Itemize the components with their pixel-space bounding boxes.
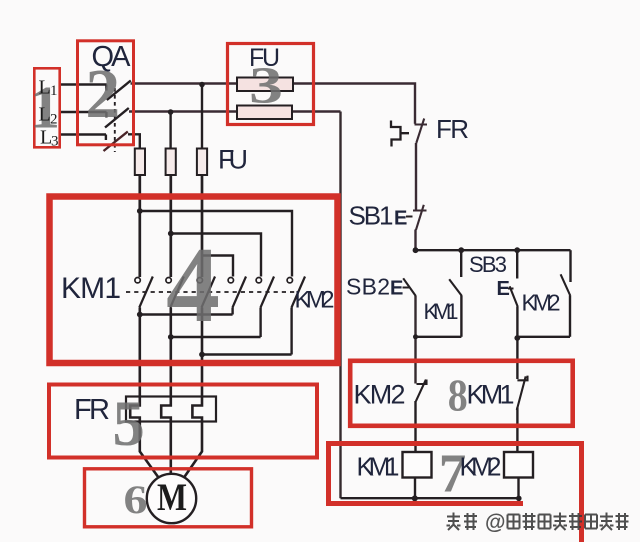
svg-text:KM2: KM2: [354, 380, 406, 410]
wire phase V lower with FR heater jog: [161, 308, 171, 475]
wire phase V upper: [169, 175, 172, 277]
junction control rail left: [413, 247, 419, 253]
wire L2 input: [59, 111, 107, 113]
wire phase U upper: [138, 175, 141, 277]
thermal relay FR heater frame: [126, 397, 216, 422]
svg-text:QA: QA: [92, 41, 132, 73]
watermark glyph 线: [569, 513, 582, 530]
junction L2/fuse2: [168, 109, 174, 115]
disconnect switch QA dashed link: [114, 88, 116, 152]
junction coil common KM2: [516, 496, 522, 502]
junction SB2 bottom tie: [413, 334, 418, 339]
wire coil common bottom: [341, 497, 520, 499]
junction phase U top: [137, 208, 143, 214]
wire KM2 coil rung: [516, 408, 518, 452]
wire L3 output to fuse 1: [128, 134, 140, 148]
svg-text:KM2: KM2: [295, 287, 335, 314]
wire KM1 aux branch drop: [460, 250, 462, 277]
SB2 actuator dash: [403, 287, 410, 289]
FR trip contact seat and blade: [415, 119, 428, 144]
wire control rung below FR contact: [415, 143, 417, 211]
svg-text:L: L: [39, 104, 51, 126]
wire SB2 rung lower: [414, 296, 416, 384]
wire tie SB3/KM2 aux: [517, 336, 570, 338]
FR trip contact paddle symbol: [391, 121, 409, 147]
mechanical link dashed line: [126, 291, 298, 293]
svg-text:4: 4: [166, 226, 220, 345]
wire tie SB2/KM1 aux: [416, 336, 462, 338]
fuse FU branch 1: [135, 149, 145, 176]
highlight box 2 QA: [78, 41, 134, 145]
KM2 interlock NC contact: [416, 380, 427, 402]
motor M circle: [147, 474, 196, 523]
svg-text:M: M: [157, 476, 187, 519]
wire tie W: [202, 353, 292, 355]
watermark glyph 气: [553, 513, 567, 531]
wire crossover A to KM2 right: [140, 211, 292, 277]
watermark glyph 架: [616, 513, 629, 530]
contactor KM2 main contact 1: [228, 277, 246, 308]
svg-text:KM1: KM1: [467, 380, 515, 410]
svg-text:E: E: [390, 278, 403, 300]
wire L2 branch down to fuse 2: [169, 112, 171, 149]
SB3 actuator dash: [508, 288, 514, 290]
stop button SB1 contact seat and blade: [413, 205, 427, 230]
svg-text:8: 8: [448, 370, 468, 421]
svg-text:KM1: KM1: [357, 452, 400, 482]
contactor coil KM2: [504, 452, 533, 478]
watermark glyph 管: [585, 515, 597, 529]
svg-text:SB3: SB3: [469, 252, 507, 277]
QA pole 1 blade: [107, 81, 131, 101]
junction L1/fuse3: [199, 82, 205, 88]
watermark glyph 头: [447, 513, 461, 531]
contactor KM2 main contact 2: [256, 277, 274, 308]
contactor KM1 main contact 2: [166, 277, 184, 308]
junction phase W bottom: [199, 352, 205, 358]
svg-text:SB2: SB2: [346, 274, 390, 300]
junction control rail mid: [458, 247, 464, 253]
wire crossover B to KM2 mid: [171, 234, 261, 277]
wire KM2 coil bottom: [517, 478, 519, 499]
wire phase W lower with FR heater jog: [184, 308, 202, 478]
junction coil common KM1: [412, 495, 418, 501]
svg-text:KM1: KM1: [424, 299, 459, 324]
contactor coil KM1: [403, 452, 432, 478]
junction phase U bottom: [137, 312, 143, 318]
wire KM1 aux lower: [460, 296, 462, 337]
svg-text:E: E: [394, 208, 407, 230]
SB1 actuator dash: [406, 216, 413, 218]
wire control rung below SB1: [414, 230, 416, 251]
watermark glyph 桥: [600, 513, 614, 531]
wire L1 output to control drop: [131, 84, 416, 124]
QA pole 2 blade: [105, 108, 129, 128]
highlight box 3 FU: [228, 44, 314, 125]
junction phase V bottom: [168, 334, 174, 340]
wire KM1 coil bottom: [414, 478, 416, 499]
wire KM1 coil rung: [414, 401, 416, 452]
wire L2 return drop: [339, 112, 341, 499]
QA pole 1 fixed tick: [105, 85, 107, 91]
wire KM2 mid bottom stub: [259, 308, 261, 338]
svg-text:6: 6: [124, 477, 148, 522]
svg-text:FR: FR: [436, 114, 469, 144]
highlight box 1 terminals: [34, 68, 59, 147]
junction SB3 bottom tie: [514, 335, 520, 341]
highlight box 5 FR: [49, 385, 317, 458]
wire control top rail: [416, 249, 571, 251]
KM1 auxiliary contact blade: [449, 279, 462, 295]
fuse FU branch 2: [166, 149, 176, 176]
wire L1 input: [59, 83, 107, 85]
QA pole 2 fixed tick: [105, 112, 107, 118]
contactor KM1 main contact 3: [197, 277, 215, 308]
wire phase W upper: [201, 175, 204, 277]
wire crossover C to KM2 left: [202, 256, 233, 277]
svg-text:L: L: [39, 77, 51, 99]
watermark glyph 正: [523, 513, 536, 530]
wire KM2 right bottom stub: [290, 308, 292, 355]
wire KM2 aux branch drop: [569, 250, 571, 282]
watermark glyph 雷: [508, 515, 520, 529]
svg-text:2: 2: [50, 112, 58, 128]
svg-text:5: 5: [112, 388, 144, 460]
watermark glyph 条: [464, 513, 477, 530]
watermark glyph 电: [539, 515, 551, 529]
KM2 auxiliary contact blade: [561, 274, 571, 295]
wire phase U lower with FR heater jog: [130, 308, 158, 478]
svg-text:3: 3: [51, 134, 59, 150]
fuse FU control 2: [237, 106, 292, 120]
wire KM2 aux lower: [569, 295, 571, 337]
svg-text:FU: FU: [218, 145, 248, 175]
QA pole 3 fixed tick: [105, 135, 107, 141]
highlight box 6 motor: [85, 469, 252, 527]
wire tie V: [171, 336, 261, 338]
wire SB3 rung lower: [516, 307, 518, 380]
wire KM2 left bottom stub: [231, 308, 233, 315]
wire L2 output: [129, 110, 341, 112]
wire SB3 rung upper: [516, 250, 518, 278]
junction control rail SB3: [514, 247, 520, 253]
fuse FU control 1: [237, 78, 293, 92]
highlight box 7 coils: [329, 444, 582, 542]
start button SB3 blade: [510, 286, 518, 306]
svg-text:KM2: KM2: [460, 452, 502, 482]
KM1 interlock NC contact: [517, 376, 528, 410]
svg-text:FR: FR: [74, 394, 110, 426]
QA pole 3 blade: [104, 132, 128, 152]
wire L3 input: [59, 133, 106, 135]
contactor KM2 main contact 3: [287, 277, 305, 308]
wire tie U: [140, 313, 233, 315]
junction phase V top: [168, 231, 174, 237]
fuse FU branch 3: [197, 149, 207, 176]
highlight box 8 interlocks: [350, 361, 573, 426]
svg-text:KM2: KM2: [522, 290, 561, 316]
highlight box 4 main contacts: [50, 197, 338, 364]
wire L1 branch down to fuse 3: [201, 85, 203, 149]
svg-text:FU: FU: [249, 44, 280, 72]
svg-text:KM1: KM1: [61, 272, 121, 305]
svg-text:E: E: [497, 278, 510, 300]
svg-text:SB1: SB1: [349, 201, 394, 231]
start button SB2 blade: [403, 278, 416, 296]
contactor KM1 main contact 1: [135, 277, 153, 308]
svg-text:@: @: [485, 511, 505, 534]
svg-text:1: 1: [50, 83, 58, 99]
